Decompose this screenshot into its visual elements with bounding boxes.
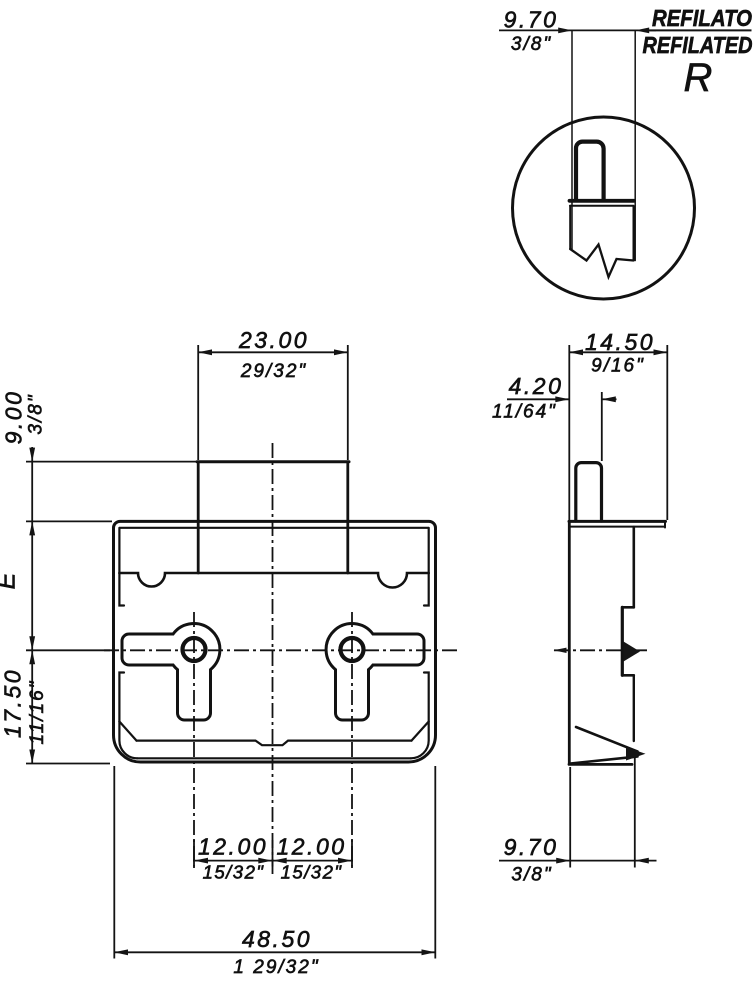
arrow 14.50 left	[569, 349, 583, 355]
svg-text:15/32": 15/32"	[281, 862, 343, 883]
dim 14.50 extension right	[666, 345, 668, 520]
keyhole slot left (union outline)	[122, 624, 220, 720]
side view detent pointer triangle	[624, 642, 641, 662]
extension line body top left	[26, 520, 112, 522]
front view inner right chamfer	[412, 722, 429, 741]
centerlines	[104, 443, 650, 875]
centerline vertical left keyhole	[193, 612, 195, 872]
svg-text:4.20: 4.20	[509, 373, 564, 399]
svg-text:E: E	[0, 572, 21, 589]
centerline horizontal front view	[104, 649, 458, 651]
dim 48.50 extension right	[434, 766, 436, 959]
arrow 14.50 right	[654, 349, 668, 355]
side view detent step top	[622, 606, 634, 609]
arrow 9.70 top right outside pointing left	[635, 28, 649, 34]
front view rolled bottom edge parallel line	[137, 757, 411, 759]
side view detent face	[621, 607, 624, 675]
dim 14.50 line	[569, 351, 668, 353]
dim 14.50 extension left	[568, 345, 570, 520]
dim 23.00 line	[198, 351, 348, 353]
arrow 48.50 left	[114, 949, 128, 955]
arrow 48.50 right	[422, 949, 436, 955]
detail tab section outline	[576, 142, 604, 200]
front view inner left edge lower segment	[119, 673, 137, 759]
detail extension line left	[571, 31, 573, 250]
front view inner right edge upper segment	[424, 528, 429, 606]
svg-text:9.00: 9.00	[1, 390, 27, 445]
dim 12.00 extension left	[193, 840, 195, 867]
arrow 4.20 left outside pointing right	[555, 396, 569, 402]
svg-text:9.70: 9.70	[504, 7, 559, 33]
dim 23.00 extension left	[197, 345, 199, 460]
keyhole ring right	[341, 638, 364, 661]
dim 4.20 extension right	[601, 392, 603, 461]
extension line tab top left	[26, 461, 197, 463]
svg-text:12.00: 12.00	[198, 834, 268, 860]
side view bottom tongue upper slant	[576, 727, 638, 752]
svg-text:23.00: 23.00	[238, 327, 309, 353]
arrow 4.20 right outside pointing left	[602, 396, 616, 402]
side view flange right end cap	[664, 521, 666, 527]
arrow 12.00 mid pointing left	[273, 858, 287, 864]
keyhole slot right (mirrored)	[326, 624, 424, 720]
front view top tab left edge	[197, 462, 200, 573]
front view inner left edge upper segment	[119, 528, 124, 606]
arrow 9.70 top left outside pointing right	[558, 28, 572, 34]
arrow 9.70 bottom left outside pointing right	[556, 858, 570, 864]
svg-text:11/64": 11/64"	[492, 402, 557, 423]
extension line body bottom left	[26, 763, 110, 765]
arrow shared at body top pointing up	[29, 521, 35, 535]
svg-text:17.50: 17.50	[0, 668, 26, 738]
keyhole ring left	[183, 638, 206, 661]
front view outer outline	[113, 521, 435, 762]
svg-text:9/16": 9/16"	[591, 356, 645, 377]
detail right lower edge	[633, 206, 635, 261]
front view top tab top edge	[197, 460, 349, 463]
svg-text:R: R	[684, 56, 713, 100]
svg-text:15/32": 15/32"	[203, 862, 265, 883]
side view right edge lower	[633, 675, 635, 741]
dim 9.70 bottom line	[499, 860, 657, 862]
svg-text:REFILATED: REFILATED	[643, 32, 753, 58]
svg-text:11/16": 11/16"	[27, 680, 48, 745]
side view left edge	[568, 521, 571, 763]
svg-text:48.50: 48.50	[242, 926, 312, 952]
dim 48.50 extension left	[113, 766, 115, 959]
dim 12.00 extension right	[351, 840, 353, 867]
dim 9.00/E/17.50 shared vertical line	[31, 447, 33, 764]
svg-text:1 29/32": 1 29/32"	[233, 957, 319, 978]
svg-text:3/8": 3/8"	[26, 393, 47, 434]
dim 4.20 line left tail	[507, 398, 569, 400]
arrow 23.00 right	[334, 349, 348, 355]
arrow 17.50 bottom pointing down	[29, 750, 35, 764]
detail flange bottom line	[570, 205, 633, 207]
side view flange bottom edge	[570, 526, 665, 528]
dim 9.70 top line	[499, 29, 656, 31]
side view flange top edge	[569, 520, 666, 523]
side view bottom edge	[569, 763, 632, 766]
arrow 9.00 top pointing down	[29, 448, 35, 462]
detail break zigzag line	[570, 245, 633, 278]
arrow 23.00 left	[198, 349, 212, 355]
side view bottom tongue lower slant	[571, 757, 638, 764]
dim 23.00 extension right	[347, 345, 349, 460]
front view inner right edge lower segment	[411, 673, 429, 759]
detail left lower edge	[569, 206, 571, 249]
side view top tab	[576, 463, 602, 521]
side view detent step bottom	[622, 674, 634, 677]
centerline vertical right keyhole	[351, 612, 353, 872]
detail extension line right	[634, 31, 636, 261]
front view horizontal step line with two half-round notches	[119, 573, 428, 588]
side view centerline left arrowhead	[554, 648, 567, 653]
side view tongue tip arrow	[626, 747, 646, 761]
dim 48.50 line	[114, 951, 436, 953]
dim 4.20 line right tail	[602, 398, 617, 400]
arrow 9.70 bottom right outside pointing left	[635, 858, 649, 864]
side view right edge upper	[632, 527, 635, 607]
arrow 12.00 mid pointing right	[258, 858, 272, 864]
arrow E bottom pointing down	[29, 636, 35, 650]
arrow 12.00 far left	[194, 858, 208, 864]
dim 12.00 extension middle	[272, 840, 274, 867]
front view inner left chamfer	[119, 722, 136, 741]
front view top tab right edge	[346, 462, 349, 573]
arrow 17.50 top pointing up	[29, 650, 35, 664]
svg-text:12.00: 12.00	[276, 834, 346, 860]
svg-text:9.70: 9.70	[504, 834, 559, 860]
dim 9.70 bottom extension right	[634, 757, 636, 868]
underline REFILATO	[647, 29, 752, 31]
front view inner top edge	[120, 527, 429, 529]
svg-text:3/8": 3/8"	[511, 34, 552, 55]
detail flange top line	[570, 199, 635, 203]
centerline vertical middle	[272, 443, 274, 875]
svg-text:29/32": 29/32"	[240, 361, 307, 382]
dim 9.70 bottom extension left	[569, 767, 571, 868]
front view inner bottom floor line with center notch	[137, 741, 412, 746]
svg-text:3/8": 3/8"	[511, 865, 552, 886]
dim 12.00 line	[193, 860, 353, 862]
arrow 12.00 far right	[338, 858, 352, 864]
svg-text:REFILATO: REFILATO	[652, 5, 752, 31]
centerline horizontal side view	[554, 649, 650, 651]
detail circle	[513, 117, 695, 299]
svg-text:14.50: 14.50	[585, 329, 655, 355]
extension line centerline left	[26, 649, 110, 651]
